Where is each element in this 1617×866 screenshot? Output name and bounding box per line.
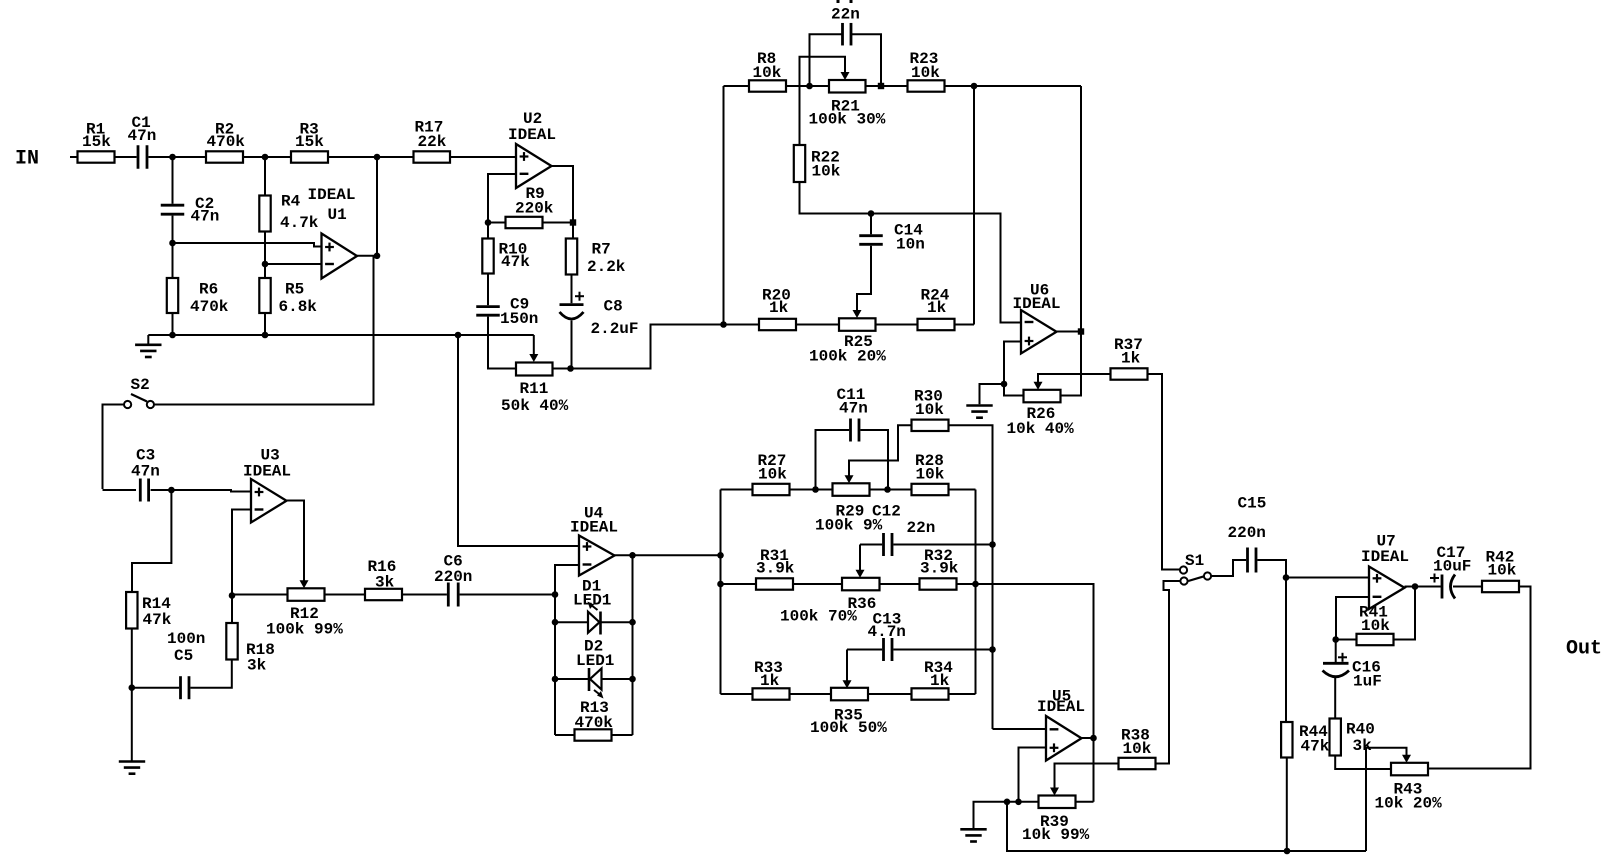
svg-text:R6: R6: [199, 281, 218, 299]
wire bottom rail: [1007, 802, 1366, 851]
capacitor C17: [1441, 575, 1444, 599]
potentiometer R36: [842, 578, 880, 591]
svg-text:3.9k: 3.9k: [920, 560, 959, 578]
wire C13 right: [893, 649, 992, 651]
wire S1 to C15: [1211, 560, 1246, 576]
node V: [229, 592, 236, 599]
node A: [169, 154, 176, 161]
wire R18 up: [231, 596, 233, 624]
node J: [485, 219, 492, 226]
wire R2 to R3: [243, 156, 291, 158]
resistor R6: [167, 278, 178, 313]
wire R31 left: [721, 583, 757, 585]
svg-text:50k 40%: 50k 40%: [501, 397, 569, 415]
capacitor C11: [849, 419, 852, 442]
capacitor C10: [841, 23, 844, 46]
svg-text:1k: 1k: [930, 672, 950, 690]
svg-text:10k 99%: 10k 99%: [1022, 826, 1090, 844]
resistor R13: [575, 729, 612, 740]
svg-text:47k: 47k: [501, 253, 530, 271]
resistor R27: [753, 484, 790, 495]
node AI: [1015, 799, 1022, 806]
wire R38 right to S1: [1156, 581, 1181, 764]
wire U3 minus: [232, 510, 251, 596]
wire U5 plus: [1019, 748, 1047, 802]
node AN: [1332, 636, 1339, 643]
svg-text:10k: 10k: [916, 466, 945, 484]
wire R10 to C9: [487, 274, 489, 306]
wire R34 right: [949, 693, 976, 695]
wire node AL down to R44: [1285, 578, 1287, 723]
svg-text:C8: C8: [604, 298, 623, 316]
resistor R18: [226, 623, 237, 660]
svg-text:15k: 15k: [295, 133, 324, 151]
svg-text:IDEAL: IDEAL: [243, 463, 291, 481]
op-amp U3: [251, 479, 287, 523]
wire S2 left: [103, 405, 125, 490]
resistor R24: [918, 319, 955, 330]
svg-text:22n: 22n: [831, 6, 860, 24]
wire C11 riser: [816, 430, 850, 490]
wire R29 to R28: [870, 489, 912, 491]
node U: [129, 684, 136, 691]
svg-text:10k: 10k: [915, 401, 944, 419]
resistor R33: [753, 688, 790, 699]
wire node W to U4 minus: [555, 565, 579, 595]
svg-text:3k: 3k: [375, 574, 395, 592]
wire R21 to R23: [866, 85, 908, 87]
resistor R1: [78, 151, 115, 162]
svg-text:100k 9%: 100k 9%: [815, 517, 883, 535]
svg-text:10k: 10k: [911, 64, 940, 82]
resistor R3: [291, 151, 328, 162]
wire U6 plus: [1004, 342, 1024, 396]
node Y2: [629, 619, 636, 626]
node S: [1001, 381, 1008, 388]
wire R13 left: [555, 734, 575, 736]
wire U2 minus: [488, 174, 516, 223]
node Y1: [552, 619, 559, 626]
resistor R31: [756, 578, 793, 589]
svg-text:C15: C15: [1238, 495, 1267, 513]
svg-text:10k: 10k: [1123, 740, 1152, 758]
wire node S to ground: [980, 384, 1005, 404]
wire R41 right: [1394, 587, 1416, 640]
node N: [878, 83, 884, 89]
wire R39 left: [1019, 801, 1039, 803]
wire C13 left: [847, 649, 882, 651]
node O: [971, 83, 978, 90]
svg-text:4.7n: 4.7n: [868, 623, 906, 641]
wire R8 to R21: [786, 85, 829, 87]
node AL: [1283, 574, 1290, 581]
wire D2 left: [555, 678, 589, 680]
svg-text:47n: 47n: [131, 463, 160, 481]
wire C16 to R40: [1334, 677, 1336, 719]
wire out to C17: [1415, 586, 1441, 588]
wire R31 to R36: [793, 583, 842, 585]
wire node H down to U4 plus: [458, 335, 579, 546]
svg-text:2.2uF: 2.2uF: [591, 320, 639, 338]
rail left mid: [723, 86, 725, 325]
resistor R41: [1357, 634, 1394, 645]
diode D1: [588, 612, 600, 633]
node L: [567, 365, 574, 372]
resistor R16: [365, 589, 402, 600]
capacitor C6: [447, 583, 450, 607]
wire U4 out to rail: [633, 554, 721, 556]
node K: [570, 219, 576, 225]
node AF: [989, 646, 996, 653]
svg-text:22n: 22n: [907, 519, 936, 537]
node AK: [1284, 848, 1291, 855]
svg-text:47n: 47n: [839, 400, 868, 418]
svg-text:10k: 10k: [1361, 617, 1390, 635]
node R: [1078, 328, 1084, 334]
wire R5 to ground rail: [264, 313, 266, 335]
resistor R44: [1281, 722, 1292, 758]
capacitor C15: [1246, 548, 1249, 573]
svg-text:22k: 22k: [418, 133, 447, 151]
svg-text:S2: S2: [131, 376, 150, 394]
svg-text:47k: 47k: [143, 611, 172, 629]
ground G2: [966, 404, 992, 407]
wire C1 to R2: [149, 156, 207, 158]
ground G1: [147, 335, 149, 344]
node I: [374, 253, 381, 260]
svg-text:10k: 10k: [753, 64, 782, 82]
resistor R28: [912, 484, 949, 495]
svg-text:LED1: LED1: [573, 592, 611, 610]
wire R41 left: [1336, 639, 1357, 641]
wire R11 right: [553, 368, 571, 370]
svg-text:100k 30%: 100k 30%: [809, 111, 886, 129]
wire C17 to R42: [1453, 586, 1482, 588]
resistor R14: [126, 592, 137, 629]
svg-text:100k 20%: 100k 20%: [809, 348, 886, 366]
resistor R32: [920, 578, 957, 589]
wire R23 right: [945, 85, 1082, 87]
potentiometer R29: [833, 483, 870, 496]
wire D2 right: [602, 678, 633, 680]
resistor R34: [912, 688, 949, 699]
potentiometer R26: [1024, 390, 1061, 403]
svg-text:470k: 470k: [190, 298, 229, 316]
op-amp U5: [1046, 716, 1082, 761]
wire C11 right: [860, 430, 888, 490]
wire U3 output: [287, 501, 305, 582]
wire R22 to C14 row: [800, 182, 1022, 323]
wire R7 to C8: [571, 275, 573, 304]
rail mid left: [720, 490, 722, 695]
wire U4 output: [615, 554, 633, 556]
wire U2 output: [552, 166, 574, 239]
svg-text:S1: S1: [1185, 552, 1204, 570]
wire R42 right down: [1428, 587, 1531, 769]
wire node B down to R4: [264, 157, 266, 196]
wire R39 right: [1076, 801, 1094, 803]
led rail left: [554, 595, 556, 736]
wire R21 wiper: [800, 57, 846, 145]
svg-text:IDEAL: IDEAL: [308, 186, 356, 204]
svg-text:10k: 10k: [758, 466, 787, 484]
wire C10 right: [851, 34, 881, 86]
op-amp U7: [1369, 567, 1405, 610]
svg-text:1k: 1k: [760, 672, 780, 690]
wire C3 to U3: [151, 490, 251, 492]
wire node V to R12: [232, 594, 288, 596]
node T: [168, 487, 175, 494]
wire U7 minus: [1336, 597, 1369, 640]
potentiometer R39: [1039, 796, 1076, 809]
wire R8 rail corner: [724, 85, 750, 87]
wire U1 output: [357, 255, 377, 257]
wire R36 to R32: [880, 583, 920, 585]
resistor R5: [259, 278, 270, 313]
wire R25 to R24: [876, 324, 918, 326]
svg-text:R11: R11: [520, 380, 549, 398]
svg-text:15k: 15k: [82, 133, 111, 151]
svg-text:1k: 1k: [769, 299, 789, 317]
node AE: [989, 541, 996, 548]
node C: [374, 154, 381, 161]
resistor R37: [1111, 368, 1148, 379]
wire C13 to R35 wiper: [846, 650, 848, 682]
wire C9 to R11: [488, 317, 516, 369]
svg-text:4.7k: 4.7k: [280, 214, 319, 232]
wire IN to R1: [70, 156, 78, 158]
wire C12 right: [893, 544, 992, 546]
resistor R23: [908, 80, 945, 91]
node Q: [720, 321, 727, 328]
svg-text:IDEAL: IDEAL: [1013, 295, 1061, 313]
op-amp U1: [322, 234, 358, 279]
svg-text:3.9k: 3.9k: [756, 560, 795, 578]
wire node I up to node C: [376, 157, 378, 256]
svg-text:U1: U1: [328, 206, 347, 224]
capacitor C10 cut label: [837, 0, 840, 3]
wire C8 down: [571, 321, 573, 369]
wire U5 output: [1082, 737, 1094, 739]
wire D1 left: [555, 621, 588, 623]
ground G4: [960, 828, 986, 831]
wire R35 to R34: [868, 693, 912, 695]
svg-text:3k: 3k: [247, 657, 267, 675]
wire R9 right: [543, 222, 574, 224]
svg-text:6.8k: 6.8k: [279, 298, 318, 316]
svg-text:1k: 1k: [1121, 350, 1141, 368]
svg-text:47n: 47n: [191, 208, 220, 226]
resistor R20: [759, 319, 796, 330]
wire R6 to ground rail: [172, 313, 174, 335]
svg-text:10k 20%: 10k 20%: [1375, 795, 1443, 813]
node AB: [717, 581, 724, 588]
resistor R38: [1119, 758, 1156, 769]
op-amp U6: [1021, 310, 1057, 354]
resistor R17: [414, 151, 451, 162]
svg-text:470k: 470k: [575, 714, 614, 732]
capacitor C16: [1323, 662, 1349, 665]
svg-text:100k 50%: 100k 50%: [810, 719, 887, 737]
resistor R40: [1330, 719, 1341, 756]
wire C14 top: [870, 214, 872, 235]
wire R27 to R29: [790, 489, 833, 491]
wire node T down: [132, 490, 171, 592]
node D: [169, 240, 176, 247]
potentiometer R25: [839, 318, 876, 331]
node AD: [884, 486, 891, 493]
wire R26 right: [1061, 332, 1082, 396]
node Z2: [629, 676, 636, 683]
potentiometer R21: [829, 80, 866, 93]
wire R4 to R5: [264, 232, 266, 279]
capacitor C14: [859, 234, 883, 237]
rail mid right: [975, 490, 977, 695]
svg-text:1k: 1k: [927, 299, 947, 317]
potentiometer R43: [1391, 763, 1428, 776]
wire to U7 plus: [1286, 577, 1369, 579]
wire C3 left: [103, 489, 137, 491]
svg-text:C5: C5: [174, 647, 193, 665]
svg-text:47k: 47k: [1301, 738, 1330, 756]
wire R9 left: [488, 222, 506, 224]
wire R1 to C1: [115, 156, 137, 158]
node AJ: [1004, 799, 1011, 806]
capacitor C8: [560, 303, 584, 306]
svg-text:3k: 3k: [1353, 737, 1373, 755]
wire C15 right: [1257, 560, 1286, 578]
wire R20 left: [724, 324, 760, 326]
wire R12 to R16: [325, 594, 366, 596]
node AC: [812, 486, 819, 493]
wire U1 out down to S2: [154, 256, 374, 405]
wire U7 output: [1405, 586, 1416, 588]
wire node A down: [172, 157, 174, 204]
svg-text:220n: 220n: [434, 568, 472, 586]
svg-text:IDEAL: IDEAL: [570, 519, 618, 537]
capacitor C2: [161, 204, 185, 207]
wire R39 wiper to R38: [1055, 764, 1119, 789]
svg-text:Out: Out: [1566, 638, 1602, 661]
rail far right: [1080, 86, 1082, 332]
wire C12 to R36 wiper: [859, 545, 861, 571]
wire node D to U1 plus: [173, 243, 322, 247]
svg-text:470k: 470k: [207, 133, 246, 151]
node P: [868, 210, 875, 217]
capacitor C9: [476, 305, 500, 308]
wire node U to ground: [131, 688, 133, 761]
wire R27 left: [721, 489, 753, 491]
wire node U to C5: [132, 687, 179, 689]
wire ground rail to R11 wiper: [533, 335, 535, 355]
wire C5 to R18: [190, 660, 231, 688]
svg-text:10k: 10k: [1488, 562, 1517, 580]
wire feedback to U5 out: [976, 584, 1094, 738]
resistor R9: [506, 217, 543, 228]
resistor R2: [206, 151, 243, 162]
wire R28 right: [949, 489, 976, 491]
svg-text:10n: 10n: [896, 236, 925, 254]
ground rail: [148, 334, 534, 336]
wire R16 to C6: [402, 594, 447, 596]
potentiometer R12: [288, 588, 325, 601]
wire U6 output: [1057, 331, 1082, 333]
wire R33 to R35: [790, 693, 832, 695]
wire R33 left: [721, 693, 753, 695]
resistor R22: [794, 145, 805, 182]
svg-text:10k 40%: 10k 40%: [1007, 420, 1075, 438]
wire R44 to bottom rail: [1286, 758, 1288, 852]
wire C12 left: [860, 544, 882, 546]
wire R30 right: [949, 425, 993, 729]
led rail right: [632, 555, 634, 735]
ground G3: [119, 760, 145, 763]
rail right mid: [973, 86, 975, 325]
capacitor C5: [179, 676, 182, 699]
resistor R42: [1482, 581, 1519, 592]
wire R43 wiper: [1366, 748, 1407, 851]
wire R29 wiper to R30: [849, 425, 912, 476]
svg-text:100n: 100n: [167, 630, 205, 648]
resistor R8: [749, 80, 786, 91]
capacitor C1: [137, 145, 140, 169]
wire C2 to node D: [172, 216, 174, 278]
wire to ground G4: [974, 802, 1019, 828]
wire R13 right: [612, 734, 633, 736]
wire U5 out down: [1093, 738, 1095, 802]
node H: [455, 332, 462, 339]
svg-text:100k 99%: 100k 99%: [266, 621, 343, 639]
svg-text:10k: 10k: [812, 163, 841, 181]
wire R24 right: [955, 324, 975, 326]
wire R20 to R25: [796, 324, 839, 326]
resistor R4: [259, 196, 270, 232]
node Z1: [552, 676, 559, 683]
svg-text:2.2k: 2.2k: [587, 258, 626, 276]
svg-text:IDEAL: IDEAL: [508, 126, 556, 144]
potentiometer R35: [831, 688, 868, 701]
resistor R10: [482, 239, 493, 274]
svg-text:LED1: LED1: [576, 652, 614, 670]
wire R14 to node U: [131, 629, 133, 688]
wire R3 to R17: [328, 156, 414, 158]
node AH: [1090, 735, 1097, 742]
svg-text:R4: R4: [281, 193, 301, 211]
resistor R7: [566, 239, 577, 275]
svg-text:1uF: 1uF: [1353, 673, 1382, 691]
svg-text:R5: R5: [285, 281, 304, 299]
node X: [629, 552, 636, 559]
wire node E to U1 minus: [265, 263, 322, 265]
capacitor C12: [882, 533, 885, 556]
node E: [262, 261, 269, 268]
svg-text:R40: R40: [1346, 721, 1375, 739]
node W: [552, 591, 559, 598]
svg-text:100k 70%: 100k 70%: [780, 608, 857, 626]
svg-text:10uF: 10uF: [1433, 558, 1471, 576]
svg-text:220k: 220k: [515, 200, 554, 218]
wire R17 to U2: [450, 156, 516, 158]
op-amp U2: [516, 144, 552, 188]
wire R37 to S1: [1148, 374, 1181, 570]
svg-text:220n: 220n: [1228, 524, 1266, 542]
node AG: [972, 581, 979, 588]
svg-text:150n: 150n: [500, 310, 538, 328]
wire C14 to R25 wiper: [857, 246, 871, 311]
wire C10 left: [810, 34, 843, 86]
wire node L to R20 row: [571, 325, 724, 369]
node AM: [1412, 583, 1419, 590]
